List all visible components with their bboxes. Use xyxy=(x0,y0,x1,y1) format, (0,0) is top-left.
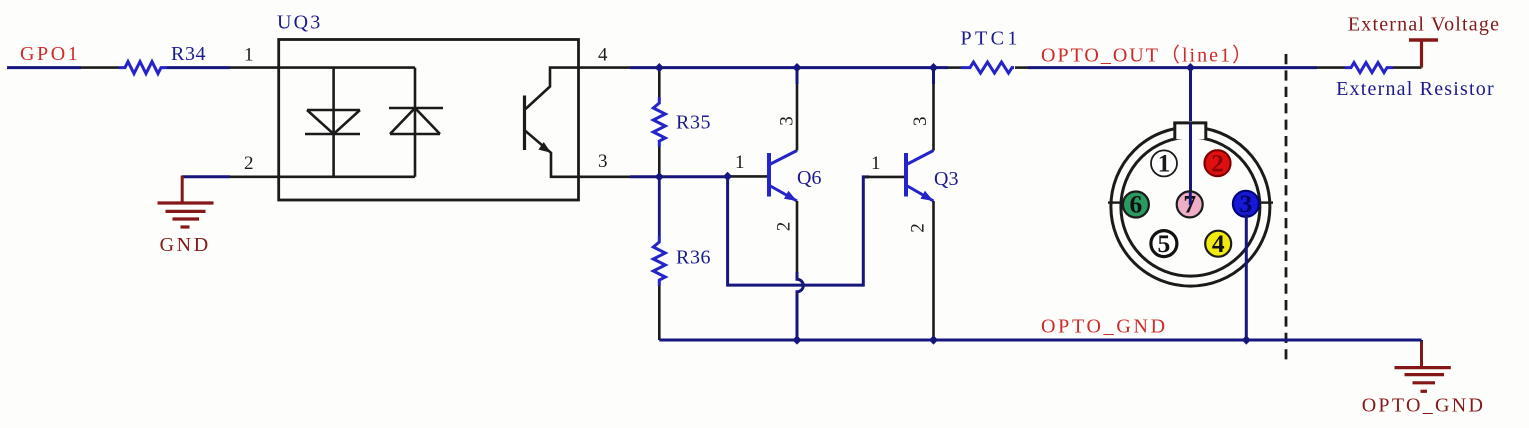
svg-text:1: 1 xyxy=(244,45,254,66)
node dot pin3 R35 xyxy=(655,172,664,181)
svg-text:5: 5 xyxy=(1158,229,1171,258)
node dot Q6 collector xyxy=(792,63,801,72)
svg-text:PTC1: PTC1 xyxy=(961,28,1021,50)
wire Q3 collector to rail xyxy=(932,68,935,84)
svg-text:Q3: Q3 xyxy=(934,168,958,190)
wire inner right vertical xyxy=(414,68,417,177)
resistor External body xyxy=(1345,63,1393,73)
resistor R34 left pin xyxy=(81,66,119,69)
node dot pin3 rail xyxy=(1242,335,1251,344)
transistor Q6 base pin xyxy=(728,175,768,178)
pin 1 stub of UQ3 xyxy=(230,66,279,69)
ground GND riser xyxy=(181,176,184,204)
connector pin 2 xyxy=(1205,150,1231,176)
wire to external resistor xyxy=(1317,66,1345,69)
svg-text:R36: R36 xyxy=(676,247,711,269)
connector J1 notch left wall xyxy=(1173,123,1176,139)
transistor Q6 emitter diagonal xyxy=(770,186,798,202)
resistor R35 body xyxy=(653,97,665,147)
resistor R36 lower pin xyxy=(658,286,661,340)
resistor R36 body xyxy=(653,236,665,286)
resistor R35 lower pin xyxy=(658,147,661,177)
svg-text:4: 4 xyxy=(1212,229,1225,258)
svg-text:2: 2 xyxy=(244,153,254,174)
pin 2 stub of UQ3 xyxy=(230,176,279,179)
node dot Q3 emitter bottom xyxy=(929,335,938,344)
resistor R35 upper pin xyxy=(658,68,661,97)
ground OPTO_GND riser xyxy=(1420,342,1423,368)
svg-text:3: 3 xyxy=(910,117,931,127)
transistor Q3 emitter pin xyxy=(932,201,935,340)
svg-text:GND: GND xyxy=(160,234,211,256)
wire external resistor to voltage riser xyxy=(1393,66,1422,69)
svg-text:GPO1: GPO1 xyxy=(20,43,80,65)
wire inner bottom rail xyxy=(279,176,415,179)
svg-text:External Voltage: External Voltage xyxy=(1348,14,1500,36)
svg-text:1: 1 xyxy=(871,153,881,174)
pin 3 stub of UQ3 xyxy=(579,176,631,179)
transistor Q6 emitter arrow xyxy=(784,191,797,201)
wire R34 to pin1 xyxy=(167,66,230,69)
connector J1 notch right wall xyxy=(1204,123,1207,139)
wire base loop Q6 to Q3 xyxy=(728,176,869,285)
connector J1 outer circle xyxy=(1111,127,1270,286)
node dot Q3 collector xyxy=(929,63,938,72)
wire Q6 collector to rail xyxy=(796,68,799,84)
transistor Q6 collector diagonal xyxy=(770,151,798,165)
resistor PTC1 body xyxy=(961,62,1014,73)
resistor PTC1 left pin xyxy=(948,66,961,69)
svg-text:R35: R35 xyxy=(676,112,711,134)
connector J1 right tick xyxy=(1259,201,1273,203)
connector pin 1 xyxy=(1151,150,1177,176)
diode D-right (LED up) xyxy=(389,108,443,134)
transistor phototransistor emitter xyxy=(526,131,579,177)
ground OPTO_GND bars xyxy=(1395,368,1451,392)
op-amp UQ3 optocoupler box xyxy=(279,40,579,201)
wire Q6 emitter with hop to bottom rail xyxy=(797,272,803,340)
wire OPTO_GND bottom rail xyxy=(659,339,1421,342)
wire Q3 collector to PTC1 xyxy=(934,66,949,69)
node dot Q6 emitter bottom xyxy=(792,335,801,344)
transistor Q3 base bar xyxy=(904,153,908,197)
connector pin 6 xyxy=(1123,192,1149,218)
svg-text:OPTO_OUT（line1）: OPTO_OUT（line1） xyxy=(1041,44,1254,67)
node dot Q6 base xyxy=(723,172,732,181)
transistor Q3 emitter diagonal xyxy=(907,186,934,202)
svg-text:UQ3: UQ3 xyxy=(277,12,323,34)
wire inner left vertical xyxy=(332,68,335,177)
svg-text:6: 6 xyxy=(1130,190,1143,219)
connector J1 left tick xyxy=(1108,201,1122,203)
dashed boundary line xyxy=(1285,54,1288,364)
transistor Q3 base pin xyxy=(865,176,905,179)
pin 4 stub of UQ3 xyxy=(579,66,631,69)
transistor Q3 collector pin xyxy=(932,84,935,151)
transistor Q6 emitter pin xyxy=(796,201,799,272)
connector J1 inner circle xyxy=(1121,137,1260,276)
svg-text:2: 2 xyxy=(774,222,795,232)
wire rail to ground right xyxy=(1420,340,1423,343)
transistor Q3 emitter arrow xyxy=(921,191,934,201)
wire notch pass xyxy=(1189,123,1192,142)
svg-text:External Resistor: External Resistor xyxy=(1336,78,1495,100)
svg-text:Q6: Q6 xyxy=(797,167,821,189)
connector pin 4 xyxy=(1205,231,1231,257)
svg-text:2: 2 xyxy=(908,223,929,233)
wire GPO1 net left segment xyxy=(7,66,81,69)
node dot OPTO_OUT xyxy=(1186,63,1195,72)
svg-text:OPTO_GND: OPTO_GND xyxy=(1041,316,1168,338)
ground GND bars xyxy=(158,203,214,227)
power External Voltage riser xyxy=(1420,40,1423,68)
connector pin 3 xyxy=(1233,191,1259,217)
transistor phototransistor emitter arrow xyxy=(539,142,552,153)
wire pin3 down to OPTO_GND rail xyxy=(1245,214,1248,340)
transistor Q3 collector diagonal xyxy=(907,151,934,165)
resistor R36 upper pin xyxy=(658,177,661,236)
svg-text:3: 3 xyxy=(1240,189,1253,218)
wire PTC1 to OPTO_OUT xyxy=(1028,66,1317,69)
svg-text:3: 3 xyxy=(598,151,608,172)
resistor PTC1 right pin xyxy=(1015,66,1028,69)
wire into pin 7 center xyxy=(1189,192,1192,205)
connector pin 5 xyxy=(1151,231,1177,257)
wire pin3 row xyxy=(630,175,730,178)
connector J1 notch mask xyxy=(1173,121,1207,139)
wire OPTO_OUT down to pin7 xyxy=(1189,68,1192,204)
connector J1 notch lid xyxy=(1173,121,1207,124)
svg-text:1: 1 xyxy=(1158,149,1171,178)
transistor Q6 collector pin xyxy=(796,84,799,151)
svg-text:3: 3 xyxy=(777,116,798,126)
wire inner top rail xyxy=(279,66,415,69)
transistor phototransistor base bar xyxy=(523,96,526,151)
transistor Q6 base bar xyxy=(767,153,771,197)
svg-text:2: 2 xyxy=(1211,148,1224,177)
node dot top R35 xyxy=(655,63,664,72)
svg-text:4: 4 xyxy=(598,45,608,66)
svg-text:1: 1 xyxy=(735,152,745,173)
connector pin 7 xyxy=(1177,191,1203,217)
svg-text:R34: R34 xyxy=(171,43,206,65)
wire GND to pin2 xyxy=(182,175,230,178)
transistor phototransistor collector xyxy=(526,68,579,109)
resistor R34 body xyxy=(119,62,167,74)
power External Voltage bar xyxy=(1409,38,1438,42)
wire pin4 to top rail xyxy=(630,66,934,69)
diode D-left (LED down) xyxy=(305,110,360,134)
svg-text:OPTO_GND: OPTO_GND xyxy=(1362,395,1486,417)
